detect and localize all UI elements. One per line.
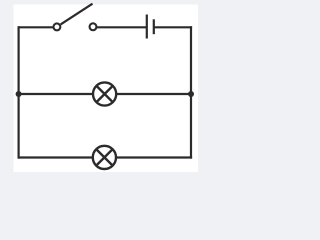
wire top rail right segment bbox=[154, 26, 192, 28]
wire top rail left segment bbox=[18, 26, 54, 28]
wire right vertical bbox=[190, 26, 192, 158]
lamp L2 bbox=[93, 146, 116, 169]
lamp L1 bbox=[93, 82, 116, 105]
wire left vertical bbox=[18, 26, 20, 158]
page background bbox=[0, 0, 198, 172]
wire top rail middle segment bbox=[97, 26, 147, 28]
node junction right bbox=[188, 91, 194, 97]
wire middle rail bbox=[18, 93, 193, 95]
node junction left bbox=[16, 91, 22, 97]
battery cell B1 bbox=[147, 15, 154, 39]
switch terminal left bbox=[53, 23, 60, 30]
switch terminal right bbox=[90, 23, 97, 30]
wire bottom rail bbox=[18, 156, 193, 158]
battery long plate bbox=[146, 15, 148, 39]
switch blade bbox=[61, 4, 93, 25]
switch S1 bbox=[53, 4, 96, 31]
white card bbox=[14, 5, 199, 173]
battery short plate bbox=[153, 19, 155, 34]
